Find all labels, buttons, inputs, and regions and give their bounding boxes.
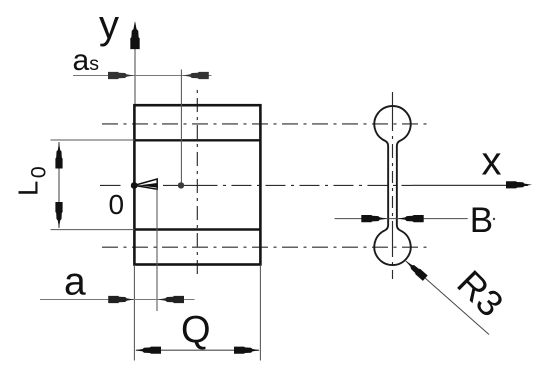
origin dot xyxy=(131,182,138,189)
Q arrow right (points right) xyxy=(234,347,260,354)
y-axis arrow xyxy=(130,21,139,49)
a arrow right (points left) xyxy=(158,296,184,303)
tiny dash after B xyxy=(493,218,495,220)
x-axis solid part xyxy=(412,184,528,186)
svg-text:0: 0 xyxy=(109,189,125,220)
centerline top (dash-dot through upper hole axis) xyxy=(102,123,429,125)
extension of left edge below rectangle xyxy=(133,265,135,361)
sheet edge line lower (inside rectangle) xyxy=(134,228,260,230)
svg-text:x: x xyxy=(482,140,502,184)
dimension Q line xyxy=(136,349,259,351)
as arrow left (points right) xyxy=(108,72,134,79)
L0 arrow up xyxy=(55,143,62,169)
dimension a line xyxy=(40,299,195,301)
Q arrow left (points left) xyxy=(135,347,161,354)
centerline bottom (dash-dot through lower hole axis) xyxy=(102,246,429,248)
dimension L0 line xyxy=(58,142,60,228)
svg-text:Q: Q xyxy=(181,309,211,351)
extension line for as (electrode position) xyxy=(180,70,182,186)
y-axis line xyxy=(134,23,136,104)
dimension as line xyxy=(73,75,212,77)
R3 leader line xyxy=(406,261,489,335)
B arrow right (points left) xyxy=(398,215,424,222)
R3 leader arrowhead xyxy=(403,258,427,281)
origin notch triangle xyxy=(134,179,157,189)
origin notch inner wedge xyxy=(139,183,158,188)
centerline middle / x-axis dash-dot part xyxy=(100,184,121,186)
svg-text:B: B xyxy=(470,201,493,240)
as arrow right (points left) xyxy=(183,72,209,79)
specimen outline rectangle xyxy=(134,105,260,264)
svg-text:y: y xyxy=(99,3,119,47)
sheet edge line upper (inside rectangle) xyxy=(134,139,260,141)
svg-text:a: a xyxy=(64,261,86,304)
B arrow left (points right) xyxy=(361,215,387,222)
extension line lower left (for L0) xyxy=(51,229,135,231)
extension of right edge below rectangle xyxy=(259,265,261,361)
vertical centerline of holes/slot (dash-dot) xyxy=(392,92,394,279)
x-axis arrow xyxy=(506,181,532,188)
vertical centerline of specimen (dash-dot) xyxy=(196,88,198,276)
measuring line from notch down xyxy=(156,189,158,312)
L0 arrow down xyxy=(55,202,62,228)
extension line upper left (for L0) xyxy=(51,139,135,141)
dimension B line xyxy=(335,218,468,220)
weld point marker dot xyxy=(178,182,184,188)
a arrow left (points right) xyxy=(108,296,134,303)
dog-bone cutout outline (two holes joined by slot) xyxy=(374,106,410,265)
